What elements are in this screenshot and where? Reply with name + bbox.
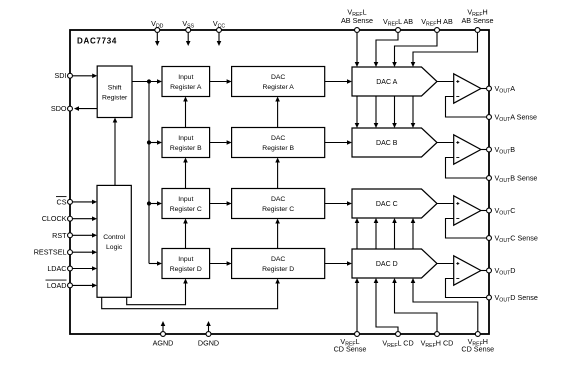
pin VOUT D Sense	[487, 295, 492, 300]
svg-text:DAC A: DAC A	[376, 79, 397, 86]
node bus junction row A	[147, 79, 151, 83]
svg-text:Register: Register	[102, 94, 128, 101]
pin VOUT A Sense	[487, 115, 492, 120]
wire VREF AB line 1 DAC A to DAC B	[356, 96, 358, 124]
svg-text:Logic: Logic	[106, 244, 123, 251]
wire control logic to input register D	[127, 284, 186, 305]
svg-text:Input: Input	[178, 135, 193, 142]
svg-text:CD Sense: CD Sense	[461, 345, 494, 354]
svg-text:LOAD: LOAD	[47, 281, 67, 290]
svg-text:DGND: DGND	[198, 339, 219, 348]
wire VREFL CD Sense to DAC D	[356, 283, 358, 332]
wire input register B to input register A	[185, 102, 187, 128]
wire op-amp C feedback from sense	[446, 219, 487, 239]
svg-text:Register A: Register A	[262, 84, 294, 91]
wire DAC D to op-amp D	[437, 263, 454, 265]
svg-text:VREFL CD: VREFL CD	[382, 338, 413, 349]
svg-text:Shift: Shift	[108, 84, 122, 91]
wire DAC register D to DAC D	[325, 263, 347, 265]
control logic	[97, 185, 131, 297]
wire DAC C to op-amp C	[437, 203, 454, 205]
wire op-amp B feedback from sense	[446, 158, 487, 179]
wire VREF CD line 3 DAC D to DAC C	[394, 223, 396, 250]
DAC C	[352, 189, 437, 218]
wire op-amp C output	[481, 210, 486, 212]
svg-text:RESTSEL: RESTSEL	[34, 248, 67, 257]
svg-text:DAC B: DAC B	[376, 140, 398, 147]
wire DAC register C to DAC register B	[277, 163, 279, 189]
DAC A	[352, 67, 437, 96]
wire op-amp B output	[481, 149, 486, 151]
DAC D	[352, 249, 437, 278]
svg-text:DAC: DAC	[271, 256, 285, 263]
wire bus to input register C	[149, 203, 157, 205]
wire shift register to input register A	[132, 81, 157, 83]
svg-text:Register B: Register B	[262, 145, 294, 152]
op-amp B	[454, 135, 481, 164]
svg-text:Input: Input	[178, 196, 193, 203]
wire control logic to DAC register D	[102, 284, 278, 309]
svg-text:DAC: DAC	[271, 135, 285, 142]
svg-text:AGND: AGND	[153, 339, 174, 348]
wire DAC register C to DAC C	[325, 203, 347, 205]
svg-text:SDI: SDI	[55, 71, 67, 80]
wire input register D to input register C	[185, 224, 187, 249]
input register B	[162, 128, 210, 158]
svg-text:Control: Control	[103, 234, 125, 241]
op-amp C	[454, 196, 481, 225]
svg-text:Register C: Register C	[170, 206, 202, 213]
svg-text:AB Sense: AB Sense	[462, 16, 494, 25]
wire DAC register A to DAC A	[325, 81, 347, 83]
wire DAC A to op-amp A	[437, 81, 454, 83]
wire op-amp A output	[481, 88, 486, 90]
wire vertical data bus	[148, 82, 150, 264]
wire VREF AB line 2 DAC A to DAC B	[375, 96, 377, 124]
svg-text:Input: Input	[178, 256, 193, 263]
wire DAC register D to DAC register C	[277, 224, 279, 249]
wire VREFH CD Sense to DAC D	[413, 283, 478, 332]
svg-text:Register C: Register C	[262, 206, 294, 213]
svg-text:Input: Input	[178, 74, 193, 81]
wire control logic to shift register	[114, 123, 116, 186]
wire input register A to DAC register A	[210, 81, 227, 83]
DAC register B	[232, 128, 325, 158]
wire input register C to input register B	[185, 163, 187, 189]
wire input register B to DAC register B	[210, 142, 227, 144]
svg-text:DAC: DAC	[271, 196, 285, 203]
svg-text:Register B: Register B	[170, 145, 202, 152]
node bus junction row B	[147, 140, 151, 144]
svg-text:CD Sense: CD Sense	[334, 345, 367, 354]
node bus junction row C	[147, 201, 151, 205]
wire VREF AB line 4 DAC A to DAC B	[412, 96, 414, 124]
svg-text:Register D: Register D	[170, 266, 202, 273]
wire DAC register B to DAC register A	[277, 102, 279, 128]
wire VREF CD line 2 DAC D to DAC C	[375, 223, 377, 250]
svg-text:DAC D: DAC D	[376, 261, 398, 268]
svg-text:DAC7734: DAC7734	[77, 37, 117, 46]
svg-text:DAC: DAC	[271, 74, 285, 81]
wire VREFL AB Sense to DAC A	[356, 33, 358, 63]
wire VREF AB line 3 DAC A to DAC B	[394, 96, 396, 124]
wire DAC register B to DAC B	[325, 142, 347, 144]
svg-text:Register A: Register A	[170, 84, 202, 91]
DAC register D	[232, 249, 325, 279]
pin VOUT C Sense	[487, 236, 492, 241]
input register A	[162, 67, 210, 97]
DAC register A	[232, 67, 325, 97]
chip border DAC7734	[70, 30, 489, 334]
DAC register C	[232, 189, 325, 219]
wire VREFH CD to DAC D	[395, 283, 438, 332]
input register C	[162, 189, 210, 219]
pin VOUT B	[487, 147, 492, 152]
svg-text:LDAC: LDAC	[47, 264, 66, 273]
wire input register C to DAC register C	[210, 203, 227, 205]
wire VREFL CD to DAC D	[376, 283, 398, 332]
svg-text:CLOCK: CLOCK	[42, 214, 67, 223]
op-amp A	[454, 74, 481, 103]
wire op-amp D output	[481, 270, 486, 272]
input register D	[162, 249, 210, 279]
pin VOUT B Sense	[487, 176, 492, 181]
wire bus to input register D	[149, 263, 157, 265]
DAC B	[352, 128, 437, 157]
wire bus to input register B	[149, 142, 157, 144]
wire VREFL AB to DAC A	[376, 33, 398, 63]
wire VREF CD line 1 DAC D to DAC C	[356, 223, 358, 250]
svg-text:CS: CS	[57, 197, 67, 206]
op-amp D	[454, 256, 481, 285]
svg-text:AB Sense: AB Sense	[341, 16, 373, 25]
wire VREFH AB Sense to DAC A	[413, 33, 478, 63]
wire op-amp D feedback from sense	[446, 279, 487, 298]
shift register	[97, 66, 132, 118]
svg-text:Register D: Register D	[262, 266, 294, 273]
wire DAC B to op-amp B	[437, 142, 454, 144]
wire VREFH AB to DAC A	[395, 33, 438, 63]
wire op-amp A feedback from sense	[446, 97, 487, 118]
svg-text:RST: RST	[52, 231, 67, 240]
svg-text:SDO: SDO	[51, 104, 67, 113]
wire VREF CD line 4 DAC D to DAC C	[412, 223, 414, 250]
pin VOUT A	[487, 86, 492, 91]
pin VOUT C	[487, 208, 492, 213]
svg-text:DAC C: DAC C	[376, 201, 398, 208]
pin VOUT D	[487, 268, 492, 273]
wire input register D to DAC register D	[210, 263, 227, 265]
